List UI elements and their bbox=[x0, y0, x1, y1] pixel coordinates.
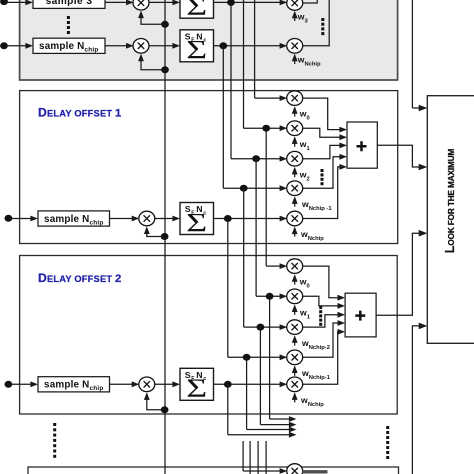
wire: bus vertical from sigma-3 (gray) down to w_2 of box 1 bbox=[230, 2, 232, 158]
wire: bus feed to w_0 of delay 2 bbox=[266, 265, 281, 267]
wire: w_Nchip weight arrow delay 1 bbox=[294, 228, 296, 237]
wire: code tap to multiplier row sample 3 bbox=[141, 13, 165, 25]
wire: feed vertical 4 into last section bbox=[265, 441, 267, 474]
node: input tap dot row sample 3 bbox=[0, 0, 8, 5]
block: sample Nchip register delay 1 bbox=[38, 211, 110, 226]
svg-text:Σ: Σ bbox=[186, 374, 207, 403]
wire: branch vertical from w_Nchip-2 feed delay 2 down to lower sections bbox=[259, 327, 261, 425]
block: accumulator sigma S_F N_c delay 1 bbox=[180, 203, 214, 238]
wire: w_0 delay 1 output to adder input 1 bbox=[302, 98, 340, 130]
wire: w_2 delay 1 output to adder input 3 bbox=[302, 145, 340, 158]
wire: adder 2 output to maximum block bbox=[376, 233, 420, 315]
svg-text:Σ: Σ bbox=[186, 0, 207, 21]
wire: w_Nchip output up to adder (cut) bbox=[302, 0, 329, 46]
wire: branch vertical from w_Nchip-1 feed down to w_Nchip-2 of delay 2 bbox=[243, 188, 245, 327]
wire: feed to w_0 of last section bbox=[243, 470, 281, 472]
node: code tap dot row sample 3 bbox=[161, 21, 169, 28]
wire: feed vertical 2 into last section bbox=[249, 441, 251, 474]
wire: branch vertical from w_1 feed down to w_0 of delay 2 bbox=[265, 128, 267, 266]
ellipsis: omitted sections right bbox=[386, 426, 389, 459]
wire: bus feed to w_Nchip-1 of delay 1 bbox=[223, 187, 281, 189]
wire: input to sample 3 box bbox=[4, 1, 27, 3]
svg-text:DELAY OFFSET 1: DELAY OFFSET 1 bbox=[38, 106, 122, 120]
multiplier: weight w_Nchip-2 delay 2 bbox=[287, 320, 303, 335]
node: branch dot on w_2 feed delay 1 bbox=[252, 155, 260, 162]
multiplier: weight w_2 delay 1 bbox=[287, 151, 303, 166]
wire: sigma out row Nchip to weight bbox=[214, 45, 282, 47]
node: branch dot sigma-3 output bbox=[227, 0, 235, 6]
section box: delay offset 0 (gray, cut off at top) bbox=[20, 0, 398, 80]
wire: bus feed to w_1 of delay 2 bbox=[256, 295, 281, 297]
svg-text:DELAY OFFSET 2: DELAY OFFSET 2 bbox=[38, 271, 122, 285]
wire: w_0 weight arrow delay 1 bbox=[294, 108, 296, 117]
wire: code distribution vertical line x=165 bbox=[164, 0, 166, 474]
wire: w_1 weight arrow delay 1 bbox=[294, 138, 296, 147]
wire: bus feed to w_2 of delay 1 bbox=[231, 158, 281, 160]
node: input tap dot row sample Nchip bbox=[0, 42, 8, 49]
wire: sample box to multiplier delay 2 bbox=[110, 383, 133, 385]
section box: delay offset 1 bbox=[20, 91, 398, 244]
multiplier: sample x code delay 1 bbox=[139, 211, 155, 226]
multiplier: weight w_Nchip-1 delay 2 bbox=[287, 350, 303, 365]
node: branch dot sigma-Nchip output bbox=[219, 42, 227, 49]
section box: last delay offset (cut off at bottom) bbox=[28, 467, 399, 474]
wire: input to sample box delay 1 bbox=[8, 218, 31, 220]
wire: w_0 weight arrow delay 2 bbox=[294, 276, 296, 285]
wire: sigma out delay 2 to w_Nchip bbox=[214, 383, 282, 385]
block: look for the maximum bbox=[427, 96, 474, 344]
node: branch dot sigma output delay 1 bbox=[224, 215, 232, 222]
wire: input to sample Nchip box bbox=[4, 45, 27, 47]
adder: delay 2 summer bbox=[345, 293, 376, 337]
wire: staircase arrow 4 (from sigma delay 2 branch) to further sections bbox=[228, 434, 290, 436]
wire: w_3 output up to adder (cut) bbox=[302, 0, 317, 3]
multiplier: sample x code delay 2 bbox=[139, 377, 155, 392]
svg-text:Σ: Σ bbox=[186, 208, 207, 237]
svg-text:Σ: Σ bbox=[186, 35, 207, 64]
wire: sample box to multiplier delay 1 bbox=[110, 218, 133, 220]
wire: bus feed to w_0 of delay 1 bbox=[255, 97, 281, 99]
wire: w_2 weight arrow delay 1 bbox=[294, 168, 296, 177]
wire: bus feed to w_Nchip-2 of delay 2 bbox=[244, 326, 281, 328]
wire: bus vertical from sigma-Nchip (gray) down to w_Nchip-1 of box 1 bbox=[222, 46, 224, 188]
node: code tap dot delay 1 bbox=[161, 233, 169, 240]
wire: staircase arrow 3 (from w_Nchip-1 branch) to further sections bbox=[247, 429, 290, 431]
section box: delay offset 2 bbox=[20, 256, 398, 415]
node: branch dot on w_1 feed delay 2 bbox=[266, 293, 274, 300]
multiplier: weight w_1 delay 1 bbox=[287, 121, 303, 136]
node: branch dot on w_Nchip-1 feed delay 2 bbox=[243, 354, 251, 361]
multiplier: weight w_0 last section bbox=[287, 464, 303, 474]
multiplier: weight w_0 delay 1 bbox=[287, 91, 303, 106]
wire: adder 1 output to maximum block bbox=[377, 145, 420, 167]
block: accumulator sigma S_F N_c row Nchip bbox=[180, 30, 214, 65]
wire: bus vertical (from sample 1 row above) down to w_0 of box 1 bbox=[254, 0, 256, 98]
wire: branch vertical sigma delay 1 down to w_Nchip-1 of delay 2 bbox=[227, 219, 229, 358]
wire: w_1 weight arrow delay 2 bbox=[294, 306, 296, 315]
wire: bus feed to w_1 of delay 1 bbox=[244, 127, 282, 129]
block: accumulator sigma S_F N_c delay 2 bbox=[180, 368, 214, 403]
wire: last section output up to maximum block bbox=[412, 326, 420, 474]
wire: multiplier to accumulator delay 1 bbox=[154, 218, 173, 220]
wire: input to sample box delay 2 bbox=[8, 383, 31, 385]
wire: feed vertical 1 into last section bbox=[242, 441, 244, 471]
ellipsis: omitted sections left bbox=[53, 423, 56, 458]
multiplier: weight w_Nchip-1 delay 1 bbox=[287, 181, 303, 196]
multiplier: weight w_Nchip (gray section) bbox=[287, 39, 303, 54]
wire: bus feed to w_Nchip-1 of delay 2 bbox=[228, 356, 281, 358]
multiplier: sample 3 x code bbox=[133, 0, 149, 10]
wire: multiplier to accumulator row sample 3 bbox=[149, 1, 174, 3]
wire: output of top section adder down to maximum block bbox=[411, 0, 413, 108]
wire: w_Nchip delay 1 output to adder input 5 bbox=[302, 167, 341, 219]
wire: feed vertical 3 into last section bbox=[257, 441, 259, 474]
ellipsis: between w_2 and w_Nchip-1 delay 1 bbox=[321, 169, 324, 185]
node: branch dot on w_Nchip-1 feed delay 1 bbox=[240, 185, 248, 192]
node: branch dot on w_Nchip-2 feed delay 2 bbox=[257, 324, 265, 331]
block: sample Nchip register bbox=[33, 38, 105, 53]
node: input tap dot delay 1 bbox=[4, 215, 12, 222]
wire: w_0 last section output (cut) bbox=[302, 470, 328, 473]
wire: w_1 delay 1 output to adder input 2 bbox=[302, 128, 340, 137]
wire: multiplier to accumulator row Nchip bbox=[149, 45, 174, 47]
wire: w_Nchip weight arrow delay 2 bbox=[294, 394, 296, 403]
ellipsis: between w_1 and w_Nchip-2 delay 2 bbox=[319, 306, 322, 326]
wire: code tap to multiplier row sample Nchip bbox=[141, 56, 165, 70]
wire: sample 3 to multiplier bbox=[105, 1, 127, 3]
wire: w_Nchip-1 weight arrow delay 1 bbox=[294, 198, 296, 207]
wire: branch vertical from w_1 feed delay 2 down to lower sections bbox=[269, 296, 271, 419]
wire: w_Nchip-2 delay 2 output to adder input 3 bbox=[302, 315, 338, 327]
wire: branch vertical from w_2 feed down to w_1 of delay 2 bbox=[255, 159, 257, 297]
block: sample Nchip register delay 2 bbox=[38, 377, 110, 392]
multiplier: weight w_0 delay 2 bbox=[287, 259, 303, 274]
wire: sigma out row sample 3 bbox=[214, 1, 282, 3]
multiplier: sample Nchip x code bbox=[133, 39, 149, 54]
node: code tap dot row sample Nchip bbox=[161, 66, 169, 73]
wire: sample Nchip to multiplier bbox=[105, 45, 127, 47]
wire: staircase arrow 2 (from w_Nchip-2 branch) to further sections bbox=[260, 424, 289, 426]
ellipsis: between sample 3 and sample Nchip bbox=[67, 16, 70, 34]
wire: branch vertical sigma delay 2 down to lower sections bbox=[227, 384, 229, 434]
wire: bus vertical (from sample 2 row above) down to w_1 of box 1 bbox=[243, 0, 245, 128]
wire: sigma out delay 1 to w_Nchip bbox=[214, 218, 282, 220]
wire: code tap to multiplier delay 2 bbox=[147, 394, 165, 410]
wire: w_Nchip-1 delay 1 output to adder input 4 bbox=[302, 157, 340, 188]
wire: staircase arrow 1 (from w_1 branch) to further sections bbox=[270, 418, 290, 420]
ellipsis: between w_3 and w_Nchip bbox=[321, 18, 324, 35]
block: sample 3 register bbox=[33, 0, 105, 8]
wire: branch vertical from w_Nchip-1 feed delay 2 down to lower sections bbox=[246, 357, 248, 429]
multiplier: weight w_1 delay 2 bbox=[287, 289, 303, 304]
multiplier: weight w_3 bbox=[287, 0, 303, 10]
svg-text:sample 3: sample 3 bbox=[46, 0, 93, 7]
node: input tap dot delay 2 bbox=[4, 381, 12, 388]
block: accumulator sigma S_F N_c row sample 3 (cut) bbox=[180, 0, 214, 21]
node: branch dot on w_1 feed delay 1 bbox=[262, 125, 270, 132]
wire: w_Nchip-2 weight arrow delay 2 bbox=[294, 337, 296, 346]
multiplier: weight w_Nchip delay 1 bbox=[287, 211, 303, 226]
wire: multiplier to accumulator delay 2 bbox=[154, 383, 173, 385]
wire: w_Nchip delay 2 output to adder input 5 bbox=[302, 332, 339, 385]
wire: w_0 delay 2 output to adder input 1 bbox=[302, 266, 338, 298]
wire: w_Nchip-1 weight arrow delay 2 bbox=[294, 367, 296, 376]
wire: code tap to multiplier delay 1 bbox=[147, 228, 165, 236]
wire: w_1 delay 2 output to adder input 2 bbox=[302, 296, 338, 306]
wire: w_Nchip-1 delay 2 output to adder input 4 bbox=[302, 323, 338, 357]
multiplier: weight w_Nchip delay 2 bbox=[287, 377, 303, 392]
wire: arrow into maximum block from top section bbox=[412, 107, 420, 109]
node: code tap dot delay 2 bbox=[161, 406, 169, 413]
wire: w_Nchip weight arrow bbox=[294, 55, 296, 64]
adder: delay 1 summer bbox=[347, 122, 377, 168]
wire: w_3 weight arrow bbox=[294, 13, 296, 22]
node: branch dot sigma output delay 2 bbox=[224, 381, 232, 388]
